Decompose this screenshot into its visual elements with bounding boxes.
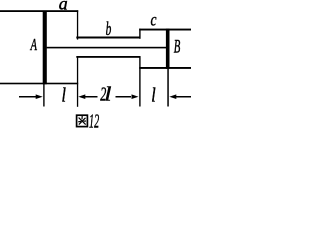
wire right edge of section a lower and extension line: [77, 56, 78, 106]
wire extension tick below wall A: [43, 84, 44, 107]
wire left edge of section c upper: [139, 29, 140, 39]
wire top of section b: [76, 37, 140, 39]
svg-text:a: a: [59, 0, 68, 14]
wire ceiling-right and top of section c: [139, 29, 191, 31]
wire floor-right and bottom of section c: [139, 67, 191, 69]
svg-text:B: B: [174, 38, 181, 58]
wire dimension arrow right of tick 2: [84, 96, 98, 98]
wire ceiling-left and top of section a: [0, 10, 78, 12]
wall B: [166, 29, 170, 69]
wall A: [43, 11, 47, 85]
svg-text:l: l: [104, 83, 111, 105]
wire dimension arrow left outer: [19, 96, 37, 98]
wire floor-left and bottom of section a: [0, 83, 78, 85]
svg-text:c: c: [151, 11, 157, 30]
wire bottom of section b: [76, 56, 140, 58]
svg-text:l: l: [151, 84, 155, 106]
wire extension tick below wall B: [167, 69, 169, 107]
wire axis rod from wall A to wall B: [47, 47, 166, 49]
wire left edge of section c lower and extension line: [139, 56, 140, 106]
wire right edge of section a upper: [77, 10, 78, 39]
svg-text:l: l: [62, 84, 66, 106]
wire dimension arrow left of tick 3: [116, 96, 132, 98]
svg-text:b: b: [106, 19, 112, 40]
svg-text:A: A: [30, 36, 38, 54]
caption box of 图 glyph: [77, 115, 88, 126]
wire dimension arrow right outer: [175, 96, 191, 98]
svg-text:12: 12: [89, 111, 99, 130]
